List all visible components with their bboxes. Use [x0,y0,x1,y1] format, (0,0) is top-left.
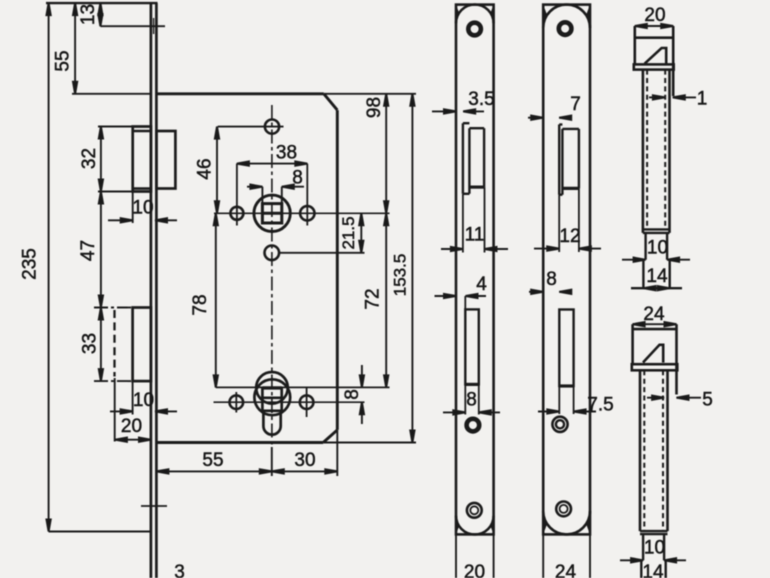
vertical centerline through hub/cylinder [271,105,273,447]
svg-text:14: 14 [642,562,664,578]
strip1 dim 4 [435,295,457,297]
svg-text:8: 8 [342,389,363,400]
strip1 dim 11 [462,194,464,253]
strip2 mid screw hole [552,417,567,432]
svg-text:11: 11 [465,225,485,246]
strip2 dim 8 [529,291,543,293]
hub horizontal centerline [214,212,390,214]
svg-text:20: 20 [464,562,485,578]
cylinder side screw holes [230,395,244,409]
235 [47,3,51,15]
dimension 10 latch [108,219,133,221]
svg-text:8: 8 [292,168,303,189]
svg-text:24: 24 [643,304,665,325]
case bottom ext to right [323,442,416,444]
case bottom chamfer [323,430,337,443]
svg-text:55: 55 [53,50,74,71]
21.5 [359,213,363,225]
strip2 outline [543,5,590,535]
8 cylinder [360,375,364,387]
latch bolt front box [133,127,151,192]
dimension 13 [99,3,101,26]
v2 dim 10 [620,559,643,561]
svg-text:13: 13 [78,4,99,25]
v2 shaft [639,370,642,531]
svg-text:98: 98 [364,97,385,118]
strip2 top screw hole [559,22,572,35]
screw holes center line horizontal [214,401,365,403]
svg-text:235: 235 [20,248,41,280]
v1 dim 10 [622,259,646,261]
55 left [73,3,77,15]
strip2 deadbolt slot [559,310,573,387]
strip1 bottom arc [456,516,494,535]
dimension 8 cylinder [361,365,363,387]
svg-text:55: 55 [202,450,223,471]
latch bolt rear box [156,131,175,189]
10 deadbolt [121,409,133,413]
v1 dim 1 [649,96,665,98]
v2 14-box [640,560,642,578]
strip2 top arc [543,5,590,28]
strip2 dim 7 [528,117,543,119]
deadbolt thrown face (dashed) [113,310,115,377]
lock case outline [156,92,323,95]
faceplate strip (forend, edge view) [150,3,153,578]
svg-text:10: 10 [132,198,153,219]
case top ext to right [324,93,416,95]
v1 14-box [642,260,644,289]
v2 forend bar [632,364,678,370]
svg-text:32: 32 [79,148,100,169]
svg-text:30: 30 [294,450,315,471]
strip1 outline [456,5,494,535]
svg-text:38: 38 [276,143,297,164]
v2 10-box [642,534,644,560]
v1 dim 20 [635,25,673,27]
svg-text:20: 20 [644,5,665,26]
dimension 46/78 line [216,127,218,214]
svg-text:72: 72 [363,288,384,309]
32 [99,127,103,139]
svg-text:33: 33 [80,333,101,354]
dimension 235 [48,3,50,531]
deadbolt top/bottom ext (dash-dot) [94,307,133,309]
hub square [262,204,281,223]
case right edge [336,110,339,430]
svg-text:21.5: 21.5 [339,216,358,249]
case bottom edge [156,441,323,444]
svg-text:78: 78 [190,294,211,315]
dimension 38 [237,163,307,165]
dimension 98/72 line [385,94,387,388]
latch ext lines left [98,126,133,128]
strip2 bottom screw hole [556,502,571,517]
svg-text:7: 7 [570,94,581,115]
dimension 55/30 bottom [156,470,337,472]
dimension 55 (left) [74,3,76,94]
latch left edge ext down to 10-dim [132,192,134,224]
hub circle [254,195,290,231]
153.5 [410,94,414,106]
33 [99,308,103,320]
dimension 21.5 [360,213,362,253]
case right edge ext below (for 30 dim) [336,430,338,476]
20 [115,438,127,442]
svg-text:47: 47 [78,240,99,261]
faceplate break tick [141,505,167,507]
38 [237,162,249,166]
v1 forend bar [634,64,674,69]
78 [214,213,218,225]
13 [98,3,102,15]
dimension 10 deadbolt [110,410,133,412]
svg-text:3.5: 3.5 [468,89,494,110]
v1 10-box [644,233,646,260]
hub side screw holes [230,207,243,220]
ext lines below deadbolt [114,378,116,442]
8 hub [250,185,262,189]
svg-text:7.5: 7.5 [587,395,613,416]
dimension 32 / 47 / 33 line [100,127,102,382]
98 [384,94,388,106]
svg-text:1: 1 [697,89,708,110]
cylinder upper circle [256,372,288,404]
svg-text:153.5: 153.5 [391,254,410,297]
faceplate top edge line [46,2,158,4]
dimension 20 [115,439,151,441]
svg-text:24: 24 [555,562,577,578]
v2 dim 24 [633,323,677,325]
svg-text:4: 4 [476,274,487,295]
v1 head box [633,26,636,64]
strip2 latch cutout [558,125,560,195]
47 [99,192,103,204]
svg-text:10: 10 [133,390,154,411]
dimension 8 hub [247,186,262,188]
strip2 bottom arc [543,511,590,534]
46 [215,127,219,139]
strip1 deadbolt slot [465,309,479,384]
strip2 ext below [542,534,544,578]
hub square ext up [261,187,263,204]
strip2 dim 7.5 [538,411,559,413]
strip1 dim 8 [443,411,465,413]
strip2 dim 12 [558,195,560,252]
v2 head box [631,324,634,364]
top hole [265,120,279,134]
strip1 bottom screw hole [467,503,482,518]
strip1 mid screw hole [467,419,480,432]
svg-text:46: 46 [195,158,216,179]
strip1 latch cutout [462,123,464,194]
strip1 dim 3.5 [432,110,456,112]
dimension 153.5 line [411,94,413,443]
follower hole below hub [265,246,280,261]
cylinder center line horizontal [216,386,390,388]
10 latch [121,218,133,222]
v1 shaft end lines [643,228,670,230]
v2 shaft end lines [640,530,668,532]
svg-text:8: 8 [546,269,557,290]
v1 shaft [642,70,645,233]
svg-text:12: 12 [559,226,580,247]
cylinder square [262,388,281,411]
svg-text:14: 14 [646,266,668,287]
72 [384,213,388,225]
deadbolt front box [133,308,151,382]
strip1 ext below [455,534,457,578]
svg-text:10: 10 [644,538,665,559]
55/30 bottom [156,469,168,473]
svg-text:20: 20 [121,416,142,437]
svg-text:8: 8 [466,390,477,411]
svg-text:5: 5 [702,390,713,411]
case top chamfer [324,94,338,110]
v2 dim 5 [647,397,664,399]
v2 bevel flag [643,345,663,363]
strip1 top arc [456,4,494,23]
svg-text:10: 10 [647,238,668,259]
svg-text:3: 3 [174,562,185,578]
cylinder lobe [263,410,280,435]
v1 bevel flag [645,48,667,64]
cylinder lower circle [254,379,290,415]
strip1 top screw hole [468,23,481,36]
